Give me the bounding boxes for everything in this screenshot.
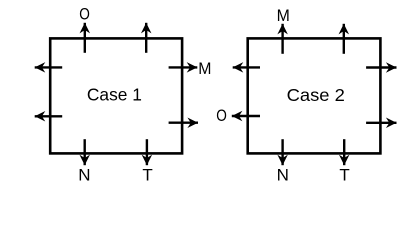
svg-text:N: N [277, 166, 289, 185]
arrow case2 top-left up [281, 24, 283, 54]
arrow case1 right-top [169, 66, 198, 68]
arrow case1 left-top [35, 66, 63, 68]
arrow case1 bottom-left down [83, 139, 85, 165]
svg-text:T: T [339, 166, 349, 185]
arrow case2 bottom-right down [343, 139, 345, 165]
svg-text:O: O [79, 4, 90, 23]
svg-text:Case 1: Case 1 [87, 85, 142, 105]
arrow case2 bottom-left down [281, 139, 283, 165]
square Case 2 [248, 38, 381, 153]
svg-text:Case 2: Case 2 [287, 85, 345, 105]
arrow case2 top-right up [343, 24, 345, 54]
svg-text:M: M [277, 6, 290, 25]
arrow case2 left-bottom [232, 115, 260, 117]
arrow case2 left-top [233, 66, 260, 68]
svg-text:T: T [142, 166, 152, 185]
arrow case2 right-bottom [366, 122, 396, 124]
arrow case1 top-right up [145, 23, 147, 53]
arrow case1 left-bottom [35, 115, 63, 117]
arrow case1 right-bottom [169, 121, 198, 123]
arrow case1 top-left up [84, 23, 86, 53]
arrow case2 right-top [366, 66, 396, 68]
arrow case1 bottom-right down [146, 139, 148, 165]
svg-text:N: N [78, 166, 90, 185]
svg-text:M: M [198, 59, 211, 78]
square Case 1 [50, 38, 182, 153]
svg-text:O: O [216, 106, 227, 125]
